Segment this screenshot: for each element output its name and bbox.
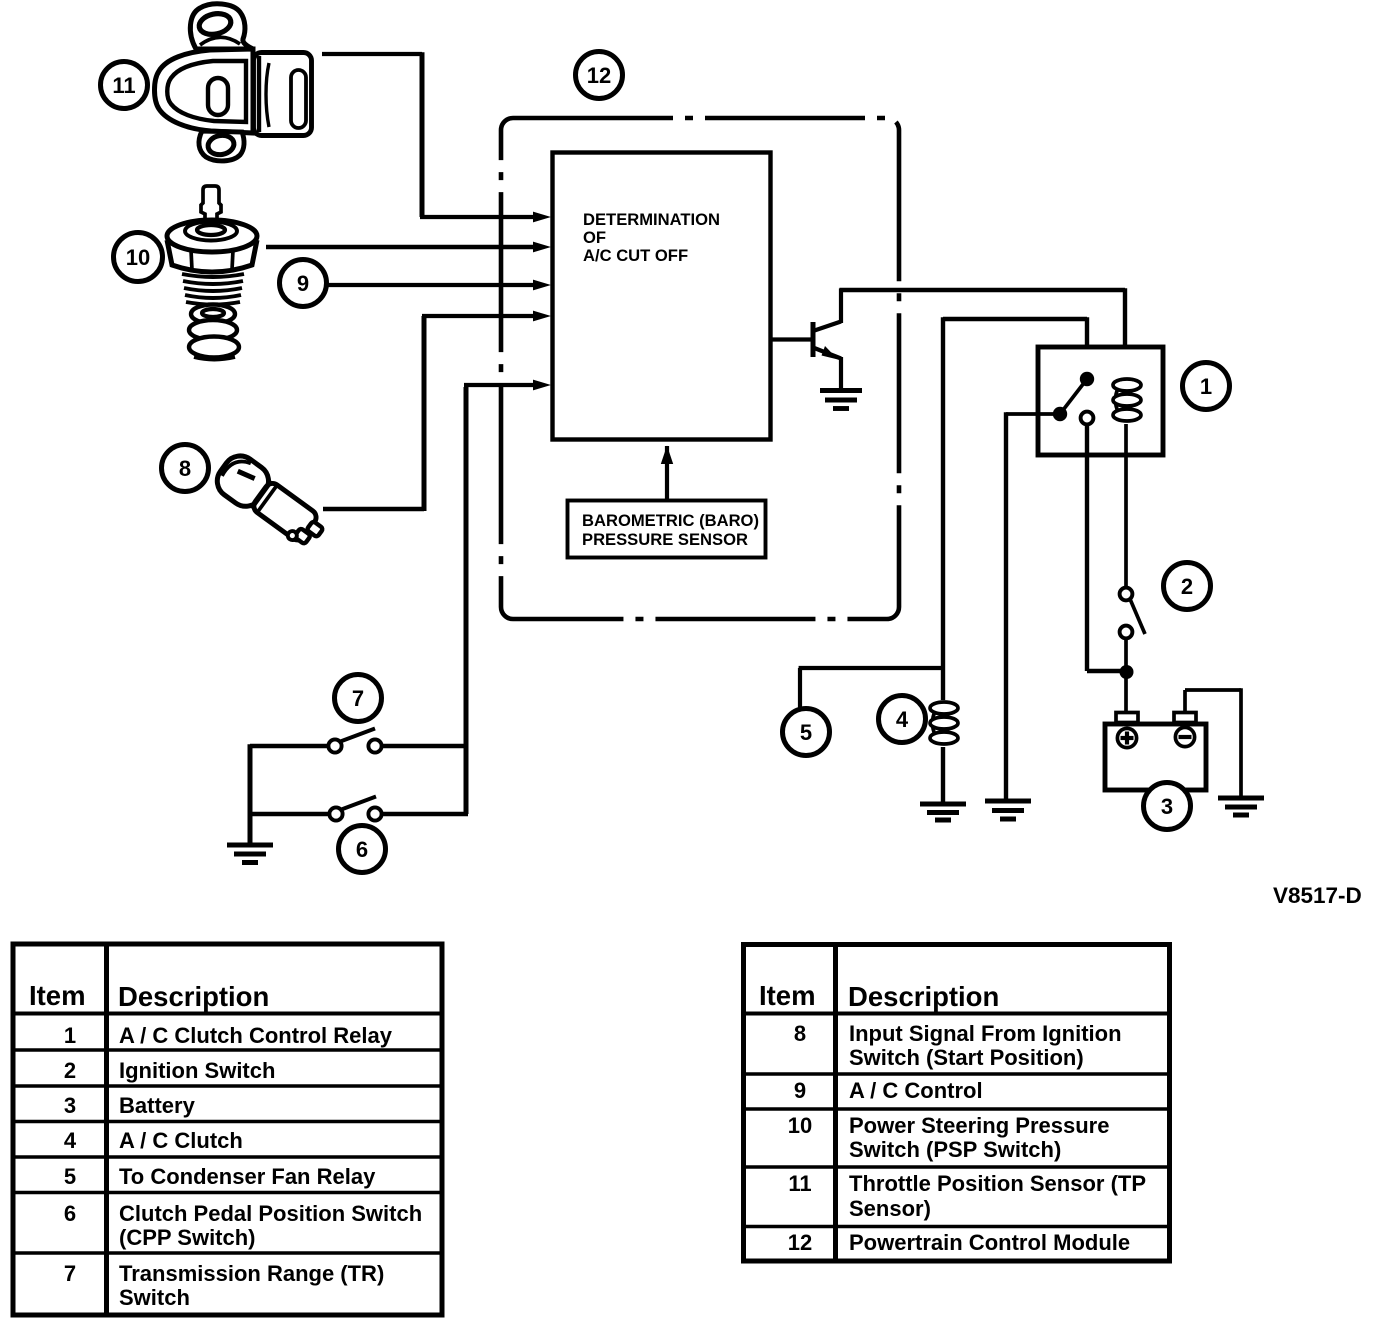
- callout circle 11: [101, 62, 148, 109]
- wire: ignition start signal 8 to input 4: [323, 316, 537, 511]
- svg-text:A / C Clutch: A / C Clutch: [119, 1128, 243, 1153]
- svg-text:A / C Control: A / C Control: [849, 1078, 983, 1103]
- callout circle 5: [783, 709, 830, 756]
- svg-text:Switch (PSP Switch): Switch (PSP Switch): [849, 1137, 1061, 1162]
- ground below relay contact leg: [985, 801, 1031, 819]
- arrow input 2: [533, 242, 551, 253]
- wire: TR/CPP switches to input 5: [464, 385, 537, 814]
- svg-text:7: 7: [64, 1261, 76, 1286]
- switch S6 (CPP switch): [329, 797, 381, 821]
- svg-text:(CPP Switch): (CPP Switch): [119, 1225, 256, 1250]
- legend table right text: [759, 980, 1146, 1255]
- svg-text:A/C CUT OFF: A/C CUT OFF: [583, 246, 688, 265]
- relay K1 box: [1038, 347, 1163, 455]
- wire: Q1 collector to relay coil: [840, 288, 1126, 377]
- svg-text:10: 10: [126, 245, 150, 270]
- callout circle 3: [1144, 783, 1191, 830]
- ignition key cylinder illustration, item 8: [211, 449, 332, 553]
- callout circle 12: [576, 52, 623, 99]
- wire: A/C control 9 to input 3: [327, 283, 537, 287]
- arrow input 3: [533, 280, 551, 291]
- wire: BARO sensor to logic box with up arrow: [661, 446, 673, 500]
- battery B3: [1105, 713, 1206, 791]
- svg-text:11: 11: [112, 73, 135, 98]
- relay normally-open contact: [1081, 412, 1094, 425]
- wire: PSP switch to input 2: [266, 245, 537, 250]
- wire: relay contact to fixed lead (left): [1006, 412, 1054, 801]
- svg-text:OF: OF: [583, 228, 606, 247]
- wire: switch to battery positive, junction node: [1120, 638, 1134, 713]
- svg-text:Switch: Switch: [119, 1285, 190, 1310]
- wire: condenser fan relay tap 5: [799, 668, 943, 709]
- svg-text:V8517-D: V8517-D: [1273, 883, 1362, 908]
- ignition switch S2: [1120, 588, 1145, 639]
- callout circle 10: [114, 233, 163, 282]
- wire: NO contact leg down to battery junction: [1087, 425, 1127, 672]
- svg-text:Powertrain Control Module: Powertrain Control Module: [849, 1230, 1130, 1255]
- arrow input 5: [533, 380, 551, 391]
- svg-text:3: 3: [1161, 794, 1173, 819]
- svg-text:Sensor): Sensor): [849, 1196, 931, 1221]
- svg-text:To Condenser Fan Relay: To Condenser Fan Relay: [119, 1164, 376, 1189]
- svg-text:1: 1: [1200, 374, 1212, 399]
- callout circle 2: [1164, 563, 1211, 610]
- svg-text:2: 2: [1181, 574, 1193, 599]
- svg-text:3: 3: [64, 1093, 76, 1118]
- wire: CPP switch S6 branch: [375, 812, 468, 816]
- svg-text:BAROMETRIC (BARO): BAROMETRIC (BARO): [582, 511, 759, 530]
- legend table right (items 8-12): [741, 942, 1172, 1262]
- svg-text:Transmission Range (TR): Transmission Range (TR): [119, 1261, 384, 1286]
- svg-text:Clutch Pedal Position Switch: Clutch Pedal Position Switch: [119, 1201, 422, 1226]
- barometric pressure sensor box: [568, 501, 766, 558]
- svg-text:9: 9: [297, 271, 309, 296]
- legend table left text: [29, 980, 422, 1310]
- svg-text:6: 6: [64, 1201, 76, 1226]
- svg-text:7: 7: [352, 686, 364, 711]
- callout circle 7: [335, 675, 382, 722]
- wire: left leg to switches: [250, 744, 330, 845]
- relay coil: [1113, 379, 1141, 457]
- transistor Q1 output driver: [772, 289, 841, 391]
- svg-text:Switch (Start Position): Switch (Start Position): [849, 1045, 1084, 1070]
- arrow input 4: [533, 311, 551, 322]
- legend table left (items 1-7): [11, 942, 445, 1316]
- svg-text:6: 6: [356, 837, 368, 862]
- A/C clutch coil L4: [930, 702, 958, 804]
- callout circle 1: [1183, 363, 1230, 410]
- ground at Q1 emitter: [820, 391, 862, 409]
- svg-text:Item: Item: [29, 980, 86, 1011]
- svg-text:DETERMINATION: DETERMINATION: [583, 210, 720, 229]
- callout circle 4: [879, 696, 926, 743]
- throttle position sensor (TP sensor) illustration, item 11: [155, 4, 312, 161]
- svg-text:4: 4: [896, 707, 909, 732]
- svg-text:A / C Clutch Control Relay: A / C Clutch Control Relay: [119, 1023, 393, 1048]
- callout circle 6: [339, 826, 386, 873]
- svg-text:5: 5: [64, 1164, 76, 1189]
- svg-text:5: 5: [800, 720, 812, 745]
- callout circle 9: [280, 260, 327, 307]
- switch S7 (TR switch): [328, 729, 381, 753]
- svg-text:10: 10: [788, 1113, 812, 1138]
- svg-text:Description: Description: [118, 981, 269, 1012]
- svg-text:Input Signal From Ignition: Input Signal From Ignition: [849, 1021, 1122, 1046]
- svg-text:8: 8: [794, 1021, 806, 1046]
- ground below A/C clutch: [920, 804, 966, 820]
- wire: coil leg down to ignition switch: [1124, 455, 1128, 588]
- PCM dash-dot enclosure U12 (Powertrain Control Module): [501, 118, 899, 619]
- wire: TP sensor to input 1: [322, 52, 537, 217]
- svg-text:9: 9: [794, 1078, 806, 1103]
- svg-text:2: 2: [64, 1058, 76, 1083]
- arrow input 1: [533, 212, 551, 223]
- svg-text:12: 12: [788, 1230, 812, 1255]
- callout circle 8: [162, 445, 209, 492]
- svg-text:1: 1: [64, 1023, 76, 1048]
- determination logic box: [553, 153, 771, 440]
- wire: battery negative to ground: [1185, 688, 1241, 798]
- svg-text:Item: Item: [759, 980, 816, 1011]
- svg-text:Throttle Position Sensor (TP: Throttle Position Sensor (TP: [849, 1171, 1146, 1196]
- svg-text:Description: Description: [848, 981, 999, 1012]
- svg-text:Ignition Switch: Ignition Switch: [119, 1058, 275, 1083]
- svg-text:8: 8: [179, 456, 191, 481]
- relay movable contact: [1053, 372, 1094, 421]
- svg-text:4: 4: [64, 1128, 77, 1153]
- svg-text:Power Steering Pressure: Power Steering Pressure: [849, 1113, 1109, 1138]
- ground G-left below switches: [227, 845, 273, 863]
- power steering pressure switch illustration, item 10: [167, 186, 257, 360]
- svg-text:12: 12: [587, 63, 611, 88]
- wire: TR switch S7 branch: [375, 744, 468, 748]
- wire: relay common feed to A/C clutch: [943, 317, 1087, 700]
- svg-text:Battery: Battery: [119, 1093, 196, 1118]
- ground at battery negative: [1218, 798, 1264, 815]
- svg-text:PRESSURE SENSOR: PRESSURE SENSOR: [582, 530, 748, 549]
- svg-text:11: 11: [788, 1171, 811, 1196]
